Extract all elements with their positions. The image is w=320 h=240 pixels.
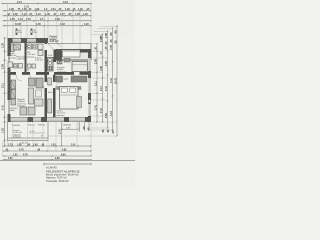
interior wall vertical hall / bedroom (53, 75, 56, 117)
tall cabinet left (11, 44, 15, 52)
room 2 label (17, 56, 27, 61)
dimension ticks top (4, 10, 91, 26)
bedroom wardrobe left (56, 76, 63, 82)
bedside table right (79, 87, 82, 90)
bottom wall pier 3 (41, 117, 47, 122)
right margin dimension chain 3 (107, 31, 109, 128)
bottom wall pier left corner (8, 117, 10, 122)
vertical dim right of terrace (61, 122, 63, 146)
right margin dimension chain 2 (102, 34, 104, 122)
covered terrace label (50, 36, 59, 44)
right chains numbers (94, 30, 117, 134)
right margin dimension chain 1 (96, 44, 98, 123)
small labels above bottom dims (20, 143, 28, 145)
window flag symbol 1 above plan (16, 29, 23, 36)
bedroom side furniture (77, 97, 82, 108)
door gap in hall wall lower (44, 82, 48, 88)
door gap 4 dining-bedroom (74, 72, 80, 76)
bottom dims ticks (4, 145, 92, 156)
top dimension line 3 (3, 15, 92, 17)
door gap 2 (30, 72, 36, 76)
terrace outline (8, 122, 49, 141)
door gap in hall wall upper (44, 44, 48, 50)
bottom witness verticals (3, 122, 92, 156)
top dimension line 5 (3, 25, 92, 27)
witness lines from top dims down to plan (8, 4, 92, 51)
scan noise overlay (0, 0, 135, 188)
right exterior wall (88, 51, 91, 122)
right margin dimension chain 5 (116, 26, 118, 136)
door gap bedroom (53, 82, 57, 88)
bathroom fixtures bottom row (8, 62, 23, 68)
top wall left block (8, 38, 49, 43)
bottom dimension row 3 (13, 153, 66, 156)
wall hatch overlays (8, 38, 92, 122)
hob mark (64, 59, 70, 63)
hall label (48, 92, 53, 94)
title block (46, 165, 80, 183)
right wall window 1 (88, 58, 91, 71)
kitchen sink fixtures (57, 61, 62, 65)
bedside table left (57, 87, 60, 90)
bathroom fixtures top (27, 44, 37, 49)
bottom exterior wall: sill lines (8, 117, 92, 121)
right wall window 3 (88, 100, 91, 116)
room 1 shower cabin (14, 44, 21, 50)
right chains ticks (96, 25, 117, 136)
right margin dimension chain 4 (112, 28, 114, 130)
short vertical dim at plan right-bottom (79, 122, 81, 132)
kitchen north counter block (56, 50, 91, 61)
interior wall horizontal (11, 72, 89, 75)
right wall window 2 (88, 78, 91, 93)
interior wall horizontal hall top (47, 60, 56, 62)
bottom wall pier 2 (28, 117, 34, 122)
interior wall vertical between top rooms (25, 43, 27, 72)
terrace small dim (29, 131, 45, 138)
bed (60, 87, 79, 110)
bottom dimension row 1 (8, 143, 76, 146)
top dimension line 2 (3, 10, 92, 12)
hall fixtures (48, 78, 52, 113)
door gap 3 (49, 72, 54, 76)
top overall dimension line (2, 3, 91, 5)
top dimension line 4 (3, 20, 92, 22)
window gap in top wall 1 (13, 39, 22, 43)
window size label living (10, 108, 19, 112)
right margin witness lines (48, 27, 117, 137)
left wall window 1 (8, 56, 11, 68)
living room label (17, 99, 27, 108)
leader line from covered terrace label (56, 43, 61, 47)
window flag symbol 2 above plan (31, 29, 38, 36)
bottom wall pier right corner (85, 117, 91, 122)
washing machine room2 (38, 44, 43, 56)
bottom dimension row 4 (8, 157, 60, 160)
sofa group (29, 78, 44, 88)
room 3 label (27, 52, 36, 58)
door mark on bottom wall (64, 117, 69, 121)
kitchen label (57, 67, 67, 73)
room 3b label (35, 57, 44, 62)
covered terrace outline (48, 44, 91, 52)
small fixtures under wc (28, 64, 36, 68)
coffee table (36, 90, 42, 97)
left wall window 2 (8, 100, 11, 114)
fold line full width (0, 160, 135, 162)
room 1 label (9, 52, 18, 59)
under-window dim (62, 122, 78, 129)
left margin witness stubs (3, 38, 8, 141)
kitchen counter blocks (48, 58, 54, 72)
left exterior wall (8, 38, 11, 122)
window flag on right wall (88, 99, 91, 105)
title underline bar (44, 163, 91, 165)
living room wardrobe (11, 80, 16, 105)
left margin dimension chain (4, 38, 6, 146)
bottom dimension row 2 (5, 148, 67, 151)
armchairs near bottom wall (20, 107, 35, 115)
window gap in top wall 2 (27, 39, 36, 43)
bedroom wardrobe right (71, 76, 87, 82)
terrace label (13, 129, 23, 139)
interior wall vertical left block / hall (45, 38, 48, 117)
bedroom label (57, 111, 67, 117)
door gap 1 (16, 72, 22, 76)
dining table (72, 62, 88, 72)
labels under bottom wall (12, 125, 72, 128)
paper background (0, 0, 135, 188)
terrace door arc (47, 45, 53, 51)
